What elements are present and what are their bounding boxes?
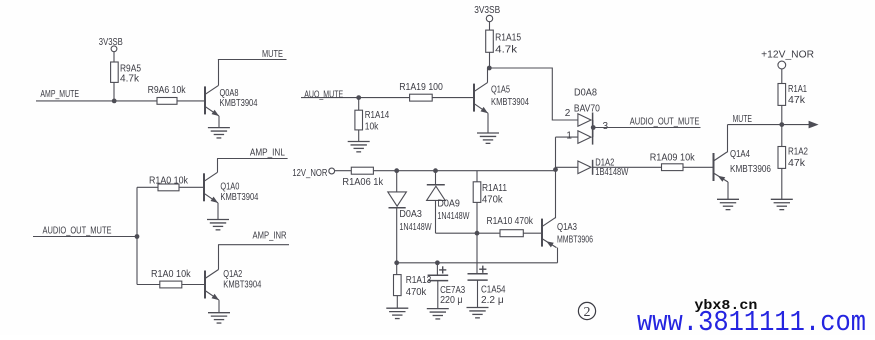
wire MUTE [218, 49, 287, 60]
svg-text:47k: 47k [788, 158, 806, 169]
node junction D0A9 [433, 168, 438, 173]
wire AMP_INR [218, 230, 289, 244]
resistor R1A09 [650, 153, 696, 171]
wire 12V node [373, 170, 555, 172]
wire BAV70 pin 1 / 12V node vertical [556, 130, 578, 218]
svg-text:MUTE: MUTE [262, 49, 283, 60]
svg-text:KMBT3906: KMBT3906 [730, 164, 771, 175]
wire AUDIO_OUT_MUTE (pin 3) [593, 117, 700, 128]
svg-text:R1A19 100: R1A19 100 [399, 82, 443, 93]
svg-text:KMBT3904: KMBT3904 [223, 280, 261, 291]
wire base node [436, 232, 543, 234]
svg-text:C1A54: C1A54 [481, 285, 506, 296]
ground [348, 142, 370, 152]
svg-text:MMBT3906: MMBT3906 [557, 235, 593, 246]
svg-text:470k: 470k [482, 195, 504, 206]
svg-text:KMBT3904: KMBT3904 [220, 192, 258, 203]
svg-text:2.2 μ: 2.2 μ [481, 295, 504, 306]
resistor R1A19 [399, 82, 443, 101]
svg-text:+12V_NOR: +12V_NOR [761, 49, 814, 60]
resistor R1A15 [486, 30, 522, 68]
diode D1A2 [556, 157, 629, 178]
dual diode D0A8 BAV70 [574, 88, 609, 145]
svg-text:470k: 470k [406, 287, 428, 298]
svg-text:R1A10 470k: R1A10 470k [487, 216, 534, 227]
ground [208, 313, 230, 323]
ground [427, 309, 449, 319]
svg-text:KMBT3904: KMBT3904 [220, 98, 258, 109]
transistor Q1A4 (PNP) [714, 125, 772, 200]
transistor Q1A2 [205, 245, 262, 313]
svg-text:2: 2 [584, 305, 591, 320]
svg-text:1B4148W: 1B4148W [595, 167, 628, 178]
wire AUO_MUTE [301, 89, 474, 100]
svg-text:R1A0 10k: R1A0 10k [151, 269, 191, 280]
svg-text:Q1A3: Q1A3 [557, 222, 577, 233]
resistor R9A5 [111, 62, 142, 101]
svg-text:R1A1: R1A1 [788, 84, 807, 95]
node junction AUO_MUTE/R1A14 [356, 95, 361, 100]
resistor R1A10 [487, 216, 534, 237]
svg-text:47k: 47k [788, 95, 806, 106]
svg-text:3V3SB: 3V3SB [99, 37, 123, 48]
svg-text:10k: 10k [365, 122, 379, 133]
node junction D0A3 [394, 168, 399, 173]
power terminal 3V3SB [99, 37, 123, 62]
node junction Q1A5 collector [487, 66, 492, 71]
wire to bases [137, 187, 205, 284]
node junction MUTE/R1A1/R1A2 [779, 122, 784, 127]
wire MUTE [728, 114, 811, 125]
svg-text:3V3SB: 3V3SB [474, 5, 500, 16]
svg-text:R1A14: R1A14 [365, 110, 390, 121]
svg-text:AUDIO_OUT_MUTE: AUDIO_OUT_MUTE [43, 226, 112, 237]
watermark ybx8.cn [694, 299, 757, 314]
svg-text:D0A9: D0A9 [437, 199, 460, 210]
capacitor CE7A3 (electrolytic) [428, 263, 466, 309]
diode D0A3 [388, 171, 432, 263]
svg-text:Q1A4: Q1A4 [730, 149, 750, 160]
wire to BAV70 pin 2 [489, 68, 578, 120]
svg-text:R1A11: R1A11 [482, 183, 507, 194]
power terminal +12V_NOR [761, 49, 814, 83]
resistor R1A11 [473, 171, 507, 234]
svg-text:1N4148W: 1N4148W [437, 211, 469, 222]
svg-text:220 μ: 220 μ [440, 295, 463, 306]
transistor Q1A3 (PNP) [542, 218, 593, 263]
resistor R1A06 [342, 167, 384, 188]
svg-text:R1A0 10k: R1A0 10k [149, 175, 189, 186]
svg-text:www.3811111.com: www.3811111.com [637, 306, 866, 335]
wire emitter rail [397, 262, 558, 264]
transistor Q1A5 [474, 68, 529, 133]
svg-text:12V_NOR: 12V_NOR [292, 168, 327, 179]
resistor R1A14 [355, 98, 390, 142]
node junction 12V node [553, 167, 558, 172]
ground [208, 128, 230, 138]
svg-text:D0A8: D0A8 [574, 88, 597, 99]
ground [386, 308, 408, 318]
terminal 12V_NOR [292, 168, 351, 179]
node junction rail/R1A13 [394, 260, 399, 265]
resistor R1A0 (lower) [151, 269, 191, 288]
resistor R1A0 (upper) [149, 175, 189, 190]
node junction AMP_MUTE/R9A5 [112, 99, 117, 104]
svg-text:2: 2 [565, 108, 571, 119]
svg-text:BAV70: BAV70 [574, 104, 600, 115]
power terminal 3V3SB [474, 5, 500, 30]
watermark www.3811111.com [637, 306, 866, 339]
resistor R1A13 [394, 263, 432, 308]
resistor R9A6 [148, 85, 187, 105]
svg-text:4.7k: 4.7k [120, 74, 140, 85]
svg-text:1N4148W: 1N4148W [399, 222, 432, 233]
svg-text:R1A15: R1A15 [495, 32, 521, 43]
svg-text:AMP_MUTE: AMP_MUTE [40, 89, 79, 100]
svg-text:AMP_INR: AMP_INR [253, 230, 287, 241]
svg-text:Q1A5: Q1A5 [491, 84, 510, 95]
node junction R1A11/C1A54 [475, 231, 480, 236]
ground [467, 308, 489, 318]
svg-text:R1A06 1k: R1A06 1k [342, 177, 384, 188]
svg-text:AUO_MUTE: AUO_MUTE [304, 89, 343, 100]
diode D0A9 [427, 171, 470, 234]
ground [717, 199, 739, 209]
ground [477, 133, 499, 143]
page marker (2) [578, 302, 595, 319]
svg-text:KMBT3904: KMBT3904 [491, 97, 529, 108]
resistor R1A2 [778, 125, 808, 200]
ground [771, 199, 793, 209]
svg-text:R1A2: R1A2 [788, 146, 808, 157]
svg-text:3: 3 [603, 121, 609, 132]
svg-text:MUTE: MUTE [733, 114, 753, 125]
svg-text:R9A6 10k: R9A6 10k [148, 85, 187, 96]
wire AUDIO_OUT_MUTE [33, 226, 137, 237]
capacitor C1A54 [468, 233, 506, 307]
svg-text:D0A3: D0A3 [399, 209, 422, 220]
arrowhead [809, 121, 819, 129]
transistor Q0A8 [205, 60, 258, 128]
svg-text:1: 1 [566, 130, 572, 141]
svg-text:4.7k: 4.7k [495, 45, 518, 56]
ground [207, 220, 229, 230]
node junction AUDIO_OUT_MUTE [135, 234, 140, 239]
resistor R1A1 [778, 84, 807, 125]
svg-text:AMP_INL: AMP_INL [250, 148, 285, 159]
wire AMP_INL [217, 148, 288, 159]
wire D1A2 to Q1A4 base [593, 166, 714, 168]
transistor Q1A0 [204, 159, 259, 220]
node junction rail/CE7A3 [435, 260, 440, 265]
svg-text:AUDIO_OUT_MUTE: AUDIO_OUT_MUTE [630, 117, 700, 128]
svg-text:R1A09 10k: R1A09 10k [650, 153, 696, 164]
wire AMP_MUTE [36, 89, 205, 101]
